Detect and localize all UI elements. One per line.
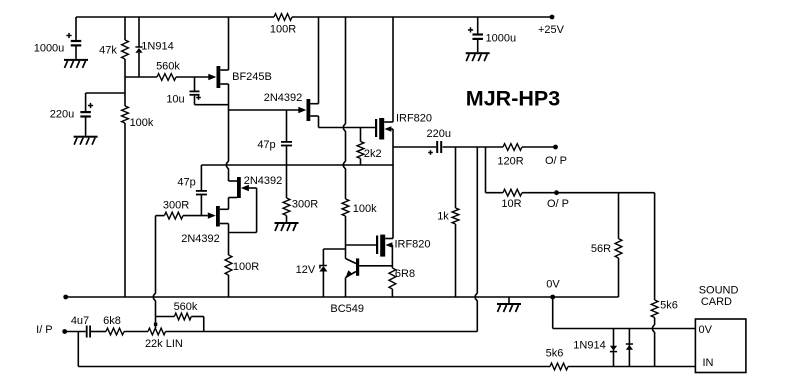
svg-text:47p: 47p bbox=[257, 139, 275, 151]
svg-text:10u: 10u bbox=[166, 94, 184, 106]
svg-text:120R: 120R bbox=[497, 156, 523, 168]
svg-text:6k8: 6k8 bbox=[103, 315, 121, 327]
svg-text:47p: 47p bbox=[177, 177, 195, 189]
svg-text:560k: 560k bbox=[174, 301, 198, 313]
svg-text:2N4392: 2N4392 bbox=[181, 233, 220, 245]
svg-text:2N4392: 2N4392 bbox=[264, 92, 303, 104]
svg-text:47k: 47k bbox=[99, 45, 117, 57]
svg-text:IRF820: IRF820 bbox=[394, 239, 430, 251]
svg-text:I/ P: I/ P bbox=[36, 324, 53, 336]
svg-text:10R: 10R bbox=[501, 198, 521, 210]
svg-text:300R: 300R bbox=[292, 199, 318, 211]
svg-text:1N914: 1N914 bbox=[573, 340, 605, 352]
svg-text:6R8: 6R8 bbox=[395, 268, 415, 280]
svg-text:2k2: 2k2 bbox=[364, 148, 382, 160]
svg-text:300R: 300R bbox=[163, 200, 189, 212]
svg-text:100k: 100k bbox=[130, 117, 154, 129]
svg-text:2N4392: 2N4392 bbox=[244, 175, 283, 187]
svg-text:5k6: 5k6 bbox=[546, 348, 564, 360]
svg-text:1000u: 1000u bbox=[486, 32, 517, 44]
svg-text:SOUND: SOUND bbox=[699, 284, 739, 296]
svg-text:CARD: CARD bbox=[701, 296, 732, 308]
svg-text:220u: 220u bbox=[50, 109, 74, 121]
svg-text:1000u: 1000u bbox=[34, 43, 65, 55]
svg-text:100k: 100k bbox=[353, 203, 377, 215]
svg-text:4u7: 4u7 bbox=[71, 315, 89, 327]
svg-text:1k: 1k bbox=[437, 211, 449, 223]
svg-text:IRF820: IRF820 bbox=[396, 113, 432, 125]
svg-text:O/ P: O/ P bbox=[547, 198, 569, 210]
svg-text:O/ P: O/ P bbox=[545, 155, 567, 167]
svg-text:220u: 220u bbox=[427, 128, 451, 140]
svg-text:+25V: +25V bbox=[538, 24, 565, 36]
svg-text:BF245B: BF245B bbox=[232, 71, 272, 83]
svg-text:12V: 12V bbox=[296, 264, 316, 276]
svg-text:MJR-HP3: MJR-HP3 bbox=[466, 87, 560, 111]
svg-text:0V: 0V bbox=[546, 279, 560, 291]
svg-text:22k LIN: 22k LIN bbox=[145, 338, 183, 350]
svg-text:560k: 560k bbox=[156, 61, 180, 73]
svg-text:56R: 56R bbox=[591, 243, 611, 255]
svg-text:0V: 0V bbox=[699, 324, 713, 336]
svg-text:100R: 100R bbox=[233, 261, 259, 273]
svg-text:1N914: 1N914 bbox=[141, 40, 173, 52]
svg-text:IN: IN bbox=[703, 357, 714, 369]
svg-text:100R: 100R bbox=[270, 24, 296, 36]
svg-text:BC549: BC549 bbox=[330, 303, 364, 315]
svg-text:5k6: 5k6 bbox=[660, 300, 678, 312]
